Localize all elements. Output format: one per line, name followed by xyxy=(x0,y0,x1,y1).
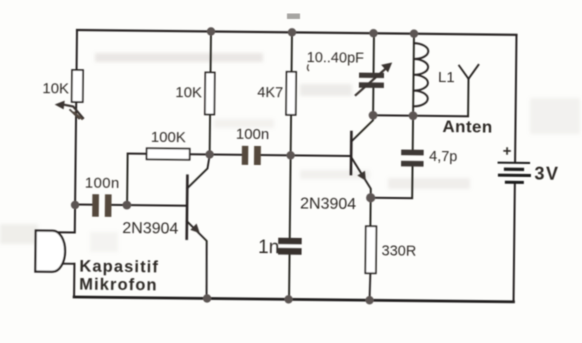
svg-text:330R: 330R xyxy=(381,243,416,259)
svg-text:+: + xyxy=(503,143,512,160)
capacitor C4 variable 10..40pF xyxy=(372,33,375,115)
wire right rail lower (battery - to ground) xyxy=(514,183,515,301)
svg-text:Kapasitif: Kapasitif xyxy=(79,258,159,277)
svg-text:4K7: 4K7 xyxy=(257,85,283,101)
node dot J tank bottom xyxy=(409,111,418,120)
capacitor C1 100n (mic coupling) xyxy=(75,204,187,205)
wire bottom ground rail xyxy=(74,297,513,302)
transistor Q2 2N3904 xyxy=(350,132,353,174)
wire branch 4K7 (top to node H) xyxy=(291,32,292,155)
node dot ground at 330R xyxy=(365,296,373,304)
wire top supply rail xyxy=(77,30,516,35)
svg-text:10K: 10K xyxy=(175,84,202,101)
capacitor C5 4,7p xyxy=(371,115,413,198)
wire right rail upper (top rail to battery +) xyxy=(515,35,516,162)
resistor R4 4K7 body xyxy=(286,72,296,115)
node dot I collector Q2 xyxy=(369,111,378,120)
capacitor C2 100n (interstage) xyxy=(210,153,291,156)
wire branch 10K bias (top to node E) xyxy=(210,31,211,154)
svg-text:10..40pF: 10..40pF xyxy=(307,50,365,67)
svg-text:2N3904: 2N3904 xyxy=(300,195,356,213)
microphone (kapasitif mikrofon) xyxy=(57,231,74,233)
inductor L1 xyxy=(412,34,415,116)
svg-text:4,7p: 4,7p xyxy=(429,149,457,165)
node dot top rail at L1 xyxy=(410,29,418,37)
node dot G left rail at C1 xyxy=(71,201,79,209)
node dot top rail at 4K7 xyxy=(288,28,296,36)
trimmer arrow of R1 xyxy=(62,104,83,118)
svg-text:1n: 1n xyxy=(258,237,279,258)
svg-text:100n: 100n xyxy=(236,126,270,143)
wire left rail upper (top rail to mic top) xyxy=(75,30,77,232)
svg-text:100n: 100n xyxy=(85,175,120,192)
resistor R3 100K feedback xyxy=(128,153,210,156)
battery B1 3V xyxy=(499,162,529,164)
node dot K emitter Q2 xyxy=(366,193,375,202)
resistor R5 330R xyxy=(370,198,372,300)
svg-text:2N3904: 2N3904 xyxy=(122,220,178,238)
node dot ground at 1n xyxy=(284,295,292,303)
resistor R2 10K body xyxy=(205,72,215,114)
svg-text:10K: 10K xyxy=(42,80,69,97)
node dot F base Q1 xyxy=(122,201,131,210)
wire left rail lower (mic bottom to ground) xyxy=(73,264,75,297)
transistor Q1 2N3904 xyxy=(185,176,188,239)
svg-text:Mikrofon: Mikrofon xyxy=(79,276,158,295)
faint scan bleed smudge top middle xyxy=(287,14,300,20)
svg-text:3V: 3V xyxy=(534,164,559,184)
node dot H base Q2 xyxy=(286,151,294,159)
capacitor C3 1n xyxy=(289,155,291,299)
resistor R1 10K with trimmer arrow (left rail) xyxy=(72,70,83,102)
node dot top rail at 10K xyxy=(207,27,215,35)
antenna xyxy=(459,65,479,117)
svg-text:L1: L1 xyxy=(438,69,455,86)
node dot E collector Q1 xyxy=(205,150,213,158)
wire node H to Q2 base xyxy=(291,154,351,157)
svg-text:Anten: Anten xyxy=(442,117,492,137)
svg-text:100K: 100K xyxy=(151,129,186,146)
node dot top rail at varcap xyxy=(369,29,377,37)
node dot ground at Q1 emitter xyxy=(203,294,211,302)
wire tank bottom (node I to node J to antenna) xyxy=(373,115,468,116)
